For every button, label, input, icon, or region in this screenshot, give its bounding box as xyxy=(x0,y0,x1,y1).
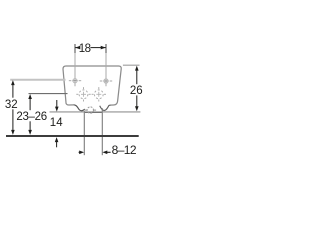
dimension 18 (hole spacing) xyxy=(75,43,105,55)
svg-text:18: 18 xyxy=(79,43,91,55)
outlet recess bottom edge xyxy=(84,111,102,113)
svg-text:23–26: 23–26 xyxy=(16,111,46,123)
svg-text:26: 26 xyxy=(130,85,143,97)
ceramic outline (bidet rear view) xyxy=(63,66,121,105)
outlet recess left extension line (x=84.3) xyxy=(83,111,85,155)
dimension 23-26 (height level) xyxy=(16,94,46,135)
level line 32 (light gray) xyxy=(10,79,65,81)
svg-text:8–12: 8–12 xyxy=(112,143,137,157)
floor line xyxy=(6,135,139,137)
outlet circle (90.3,110.1) xyxy=(85,107,97,113)
dimension 8-12 (outlet position) xyxy=(79,143,137,157)
dimension 14 (floor to ceramic bottom) xyxy=(50,100,63,147)
extension line right fixing hole (x=106) xyxy=(105,44,107,53)
top extension line for 26 xyxy=(123,64,140,66)
svg-text:14: 14 xyxy=(50,117,63,129)
water connection circle right (98.8,94.3) xyxy=(92,87,106,101)
extension line left fixing hole (x=75) xyxy=(74,44,76,53)
dimension 32 (height level) xyxy=(5,80,18,135)
water connection circle left (83.5,94.3) xyxy=(76,87,90,101)
fixing hole cross right (106,81) xyxy=(100,79,112,83)
left foot notch (wave) xyxy=(74,105,85,111)
outlet recess right extension line (x=102.2) xyxy=(101,108,103,155)
dimension 26 (height of ceramic) xyxy=(130,66,143,112)
right foot notch (wave) xyxy=(100,105,111,110)
level line 14 / bottom extension for 26 xyxy=(50,111,141,113)
svg-text:32: 32 xyxy=(5,99,18,111)
level line 23-26 xyxy=(29,93,68,95)
fixing hole cross left (75,80.7) xyxy=(69,79,81,83)
